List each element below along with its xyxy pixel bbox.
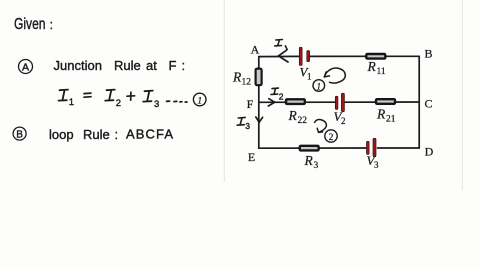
svg-text:D: D xyxy=(425,145,434,159)
svg-text:ABCFA: ABCFA xyxy=(126,127,174,142)
svg-text:2: 2 xyxy=(279,92,284,102)
svg-text:22: 22 xyxy=(298,116,308,126)
wire F-V2 (middle rail left) xyxy=(259,101,335,103)
current arrow I3 (points down along left rail below F) xyxy=(256,117,263,122)
note marker circled B xyxy=(13,127,26,140)
wire B-C-D (right rail) xyxy=(418,56,420,148)
resistor R22 xyxy=(286,99,305,104)
resistor R11 xyxy=(366,54,385,59)
svg-text:Given: Given xyxy=(14,16,46,33)
svg-text::: : xyxy=(182,58,186,73)
wire E-V3 (bottom rail left) xyxy=(259,147,366,149)
svg-text:B: B xyxy=(424,47,432,61)
label I1 xyxy=(275,40,287,50)
faint page edge line right xyxy=(461,0,463,190)
battery V1 xyxy=(299,47,309,65)
svg-text:2: 2 xyxy=(341,116,346,126)
svg-text:F: F xyxy=(169,58,177,73)
wire A-V1 (top rail left) xyxy=(259,55,299,57)
label V1 xyxy=(300,65,312,82)
svg-text:Rule: Rule xyxy=(114,58,141,73)
svg-text:F: F xyxy=(247,97,254,111)
loop 1 marker circled 1 xyxy=(313,80,325,92)
label R11 xyxy=(367,59,386,77)
svg-text::: : xyxy=(50,17,54,32)
label R3 xyxy=(304,153,319,171)
loop 2 marker circled 2 xyxy=(325,130,337,143)
battery V2 xyxy=(335,93,344,111)
svg-text:Rule: Rule xyxy=(83,127,110,142)
svg-text:loop: loop xyxy=(49,127,74,142)
note text: Junction Rule at F : xyxy=(54,58,186,73)
svg-text:A: A xyxy=(251,43,260,57)
note heading: Given : xyxy=(14,16,53,33)
svg-text:R: R xyxy=(367,59,377,74)
current arrow I2 (points right along middle rail) xyxy=(268,99,275,106)
svg-text:1: 1 xyxy=(307,72,312,82)
svg-text:R: R xyxy=(288,108,298,123)
label V2 xyxy=(334,109,346,126)
svg-text:2: 2 xyxy=(116,98,121,109)
svg-text:E: E xyxy=(248,150,255,164)
faint page edge line left xyxy=(223,0,225,182)
loop 2 direction swirl xyxy=(315,120,327,133)
svg-text:1: 1 xyxy=(69,97,74,108)
svg-text:A: A xyxy=(22,61,29,73)
note text: loop Rule : ABCFA xyxy=(49,127,174,143)
svg-text::: : xyxy=(115,127,119,142)
equation tag circled 1 xyxy=(193,93,206,106)
wire V3-D (bottom rail right) xyxy=(378,147,420,149)
label V3 xyxy=(367,153,380,170)
resistor R21 xyxy=(376,99,395,104)
note marker circled A xyxy=(19,60,33,74)
svg-text:3: 3 xyxy=(374,160,379,170)
svg-text:2: 2 xyxy=(329,133,334,143)
svg-text:1: 1 xyxy=(317,81,322,91)
svg-text:R: R xyxy=(304,153,314,168)
svg-text:21: 21 xyxy=(386,115,396,125)
svg-text:R: R xyxy=(232,70,242,85)
resistor R12 xyxy=(256,69,262,86)
svg-text:R: R xyxy=(376,107,386,122)
svg-text:B: B xyxy=(16,129,23,140)
wire V1-B (top rail right) xyxy=(310,55,419,57)
label I2 xyxy=(271,88,278,94)
battery V3 xyxy=(367,138,377,156)
label R12 xyxy=(232,70,251,88)
label R21 xyxy=(376,107,396,125)
svg-text:at: at xyxy=(146,58,157,73)
svg-text:12: 12 xyxy=(242,78,252,88)
current arrow I1 (points left along top rail) xyxy=(278,50,288,62)
svg-text:1: 1 xyxy=(197,97,202,107)
equation I1 = I2 + I3 .... (1) xyxy=(59,90,207,110)
label I3 xyxy=(237,117,245,125)
svg-text:3: 3 xyxy=(314,161,319,171)
wire V2-C (middle rail right) xyxy=(345,101,419,103)
svg-text:Junction: Junction xyxy=(54,58,102,73)
label R22 xyxy=(288,108,308,126)
svg-text:3: 3 xyxy=(245,121,250,131)
resistor R3 xyxy=(300,146,319,151)
svg-text:C: C xyxy=(424,97,432,111)
svg-text:3: 3 xyxy=(154,99,159,110)
loop 1 direction swirl xyxy=(324,68,345,83)
wire A-F-E (left rail) xyxy=(258,57,260,149)
svg-text:11: 11 xyxy=(377,67,386,77)
